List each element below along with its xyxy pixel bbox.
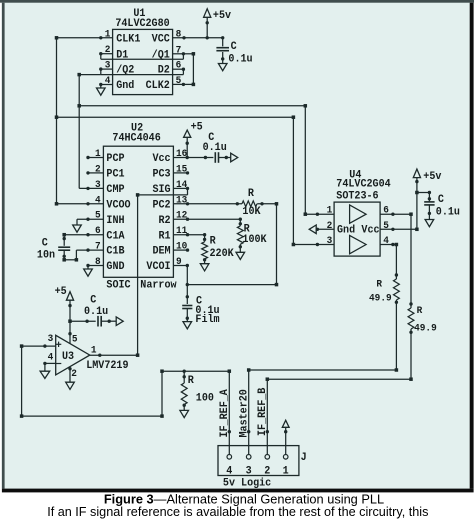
svg-text:Narrow: Narrow (140, 279, 177, 292)
wire Master20 to J pin3 (247, 370, 250, 455)
svg-text:LMV7219: LMV7219 (86, 359, 128, 372)
svg-text:1: 1 (91, 344, 97, 356)
wire R 49.9 B to IF_REF_B (266, 332, 413, 381)
ground below film capacitor (183, 318, 192, 329)
U3 pin numbers (48, 332, 97, 379)
R 100 labels (188, 375, 214, 405)
ground at U3 pin4 (40, 363, 50, 378)
U3 cap labels (84, 294, 108, 318)
U3 value label LMV7219 (86, 359, 128, 372)
R 49.9 A labels (369, 278, 392, 303)
+5v label at U4 (423, 171, 442, 184)
svg-text:DEM: DEM (152, 245, 170, 258)
wire U2 pin15 PC3 stub (173, 171, 189, 174)
wire U2 pin7 C1B stub (76, 248, 103, 251)
wire U2 pin13 PC2 to R 10K (173, 202, 242, 205)
wire U2 pin2 PC1 stub (86, 171, 103, 174)
svg-text:R: R (188, 375, 195, 388)
svg-text:PC2: PC2 (152, 199, 170, 212)
svg-text:R: R (248, 188, 255, 201)
svg-text:4: 4 (95, 194, 101, 206)
U4 value label 74LVC2G04 (336, 178, 391, 191)
wire U3 feedback from IF_REF_A (20, 346, 164, 418)
U4 reference label (349, 169, 362, 182)
svg-text:R2: R2 (159, 214, 171, 227)
svg-text:3: 3 (95, 178, 101, 190)
wire U2 pin10 DEM stub (173, 248, 189, 251)
svg-text:IF_REF_A: IF_REF_A (219, 389, 232, 438)
resistor R 49.9 B (408, 304, 414, 334)
wire IF_REF_B to J pin2 (266, 379, 269, 454)
resistor R 100 (181, 371, 187, 407)
U1 reference label (133, 8, 145, 21)
net label Master20 (238, 389, 251, 437)
U4 inverter B (350, 235, 367, 253)
wire VCO net vertical to U2 VCOO (55, 38, 59, 206)
capacitor C2 0.1u at U2 Vcc (215, 152, 228, 163)
resistor R 10K (242, 201, 257, 207)
svg-text:VCOI: VCOI (146, 261, 170, 274)
wire U1 pin4 Gnd stub (99, 83, 112, 86)
IC U4 74LVC2G04 body (334, 202, 380, 256)
wire VCOI down to film capacitor (186, 266, 189, 305)
svg-text:Vcc: Vcc (152, 153, 170, 166)
svg-text:220K: 220K (210, 248, 235, 261)
svg-text:10n: 10n (37, 249, 55, 262)
wire loop filter to VCOI (187, 204, 278, 287)
svg-text:PC1: PC1 (106, 168, 124, 181)
wire U1 pin1 CLK1 stub (55, 36, 113, 40)
connector J body (218, 446, 299, 476)
op-amp U3 LMV7219 (56, 335, 90, 375)
+5 label at U2 (191, 121, 203, 134)
capacitor C 0.1u at U3 (98, 316, 111, 327)
U4 inverter A (350, 205, 367, 223)
U1 pin name labels (116, 33, 170, 92)
svg-text:1: 1 (327, 204, 333, 216)
svg-text:PCP: PCP (106, 153, 124, 166)
svg-text:CLK1: CLK1 (116, 33, 140, 46)
wire U4 pin4 output (380, 243, 398, 247)
wire to U4 bypass cap (417, 191, 431, 194)
U4 package label SOT23-6 (336, 190, 378, 203)
wire U3 pin4 inverting input (43, 362, 56, 365)
svg-text:Gnd: Gnd (337, 224, 355, 237)
wire U3 pin2 to ground (68, 367, 71, 382)
ground at U4 pin2 (309, 225, 317, 234)
svg-text:VCC: VCC (152, 33, 171, 46)
wire U2 pin1 PCP stub (86, 156, 103, 159)
svg-text:0.1u: 0.1u (228, 53, 252, 66)
resistor R 220K (202, 235, 208, 262)
caption body text (47, 505, 428, 519)
svg-text:5v Logic: 5v Logic (223, 477, 271, 490)
wire pin6 to R 49.9 B (409, 214, 412, 305)
wire D1 to /Q1 feedback (101, 54, 184, 60)
ground right of U3 cap (109, 317, 123, 326)
wire /Q2 to D2 feedback (101, 69, 184, 75)
+5 label at U3 (55, 285, 67, 298)
svg-text:4: 4 (226, 465, 233, 478)
R 220K labels (210, 235, 235, 260)
svg-text:2: 2 (264, 465, 270, 478)
svg-text:INH: INH (106, 214, 124, 227)
ground at U3 pin2 (66, 382, 75, 390)
wire U2 pin8 GND stub (86, 264, 103, 267)
net label IF_REF_B (256, 387, 269, 436)
connector J pin circles (227, 455, 288, 460)
+5 supply at U2 (184, 130, 191, 157)
svg-text:Gnd: Gnd (116, 80, 134, 93)
svg-text:C: C (231, 41, 238, 54)
wire U1 pin5 CLK2 stub (173, 83, 185, 86)
wire U2 pin11 R1 to R 220K (173, 233, 206, 236)
R 10K labels (242, 188, 261, 219)
wire U2 pin3 CMP stub (79, 187, 103, 190)
svg-text:R1: R1 (159, 230, 171, 243)
+5v label at U1 (213, 10, 232, 23)
svg-text:IF_REF_B: IF_REF_B (256, 387, 269, 436)
svg-text:3: 3 (246, 465, 252, 478)
ground at U1 pin4 (97, 85, 106, 96)
ground below R 100K (236, 248, 245, 260)
svg-text:74LVC2G80: 74LVC2G80 (115, 17, 169, 30)
R 49.9 B labels (414, 305, 437, 334)
net label IF_REF_A (219, 389, 232, 438)
svg-text:C: C (42, 237, 49, 250)
IC U1 74LVC2G80 body (113, 29, 173, 94)
ground below R 100 (180, 406, 189, 417)
svg-text:SOIC: SOIC (106, 279, 131, 292)
wire U2 pin4 VCOO stub (57, 202, 104, 205)
wire 10K to loop filter corner (257, 202, 278, 206)
wire U2 pin16 Vcc to +5 and C2 (173, 156, 213, 159)
svg-text:If an IF signal reference is a: If an IF signal reference is available f… (47, 505, 428, 519)
R 100K labels (242, 223, 267, 246)
C 10n labels (37, 237, 55, 262)
wire U4 pin2 Gnd stub (316, 228, 334, 231)
U3 reference label (62, 351, 74, 364)
wire pin4 to R 49.9 A (395, 245, 398, 277)
svg-text:1: 1 (283, 465, 289, 478)
wire U4 pin6 output (380, 212, 413, 216)
U4 cap labels (436, 193, 460, 218)
svg-text:CLK2: CLK2 (146, 80, 170, 93)
svg-text:C: C (438, 193, 445, 206)
svg-text:0.1u: 0.1u (84, 305, 108, 318)
connector J pin numbers (226, 465, 288, 478)
svg-text:74LVC2G04: 74LVC2G04 (336, 178, 391, 191)
caption figure title (104, 491, 384, 506)
svg-text:SOT23-6: SOT23-6 (336, 190, 378, 203)
wire U2 pin9 VCOI stub (173, 264, 189, 267)
U4 Gnd Vcc labels (337, 224, 380, 237)
svg-text:C1A: C1A (106, 230, 125, 243)
C1 labels (228, 41, 252, 66)
+5v supply at U1 (204, 9, 211, 38)
IC U2 74HC4046 body (103, 146, 173, 277)
U2 value label 74HC4046 (112, 132, 160, 145)
wire R 49.9 A to Master20 (247, 302, 398, 371)
svg-text:100K: 100K (242, 233, 267, 246)
U2 package label SOIC Narrow (106, 279, 177, 292)
svg-text:49.9: 49.9 (369, 292, 392, 304)
svg-text:GND: GND (106, 261, 124, 274)
wire U4 pin5 Vcc (380, 228, 419, 232)
+5 supply at U3 (66, 292, 73, 344)
wire to U3 bypass cap (70, 320, 96, 323)
svg-text:2: 2 (71, 368, 77, 380)
svg-text:74HC4046: 74HC4046 (112, 132, 160, 145)
svg-text:0.1u: 0.1u (203, 142, 227, 155)
svg-text:+5: +5 (55, 285, 67, 298)
ground below U4 cap (425, 213, 434, 226)
wire U2 pin12 R2 to R 100K (173, 218, 242, 221)
svg-text:3: 3 (327, 235, 333, 247)
svg-text:100: 100 (196, 392, 214, 405)
resistor R 49.9 A (394, 275, 400, 304)
svg-text:3: 3 (48, 332, 54, 344)
wire U1 pin8 VCC to +5v and C1 (173, 36, 225, 39)
ground at U2 pin8 (84, 266, 93, 277)
capacitor C 10n (58, 235, 78, 262)
svg-text:49.9: 49.9 (414, 322, 437, 334)
connector J reference label (301, 452, 307, 465)
ground below C1 (218, 59, 227, 71)
svg-text:R: R (376, 278, 382, 290)
svg-text:4: 4 (48, 351, 54, 363)
U2 reference label (131, 122, 143, 135)
wire /Q2 net to U2 CMP and U4 pin1 (77, 73, 334, 216)
wire U1 pin6 D2 stub (173, 68, 185, 71)
wire U1 pin7 /Q1 stub (173, 52, 185, 55)
wire U1 pin3 /Q2 stub (99, 67, 112, 70)
svg-text:U3: U3 (62, 351, 74, 364)
wire U2 pin5 INH stub (77, 218, 103, 221)
resistor R 100K (237, 219, 243, 248)
ground right of C2 (226, 153, 237, 162)
wire IF_REF_A to J pin4 (228, 371, 231, 454)
svg-text:+5v: +5v (213, 10, 232, 23)
C2 labels (203, 132, 227, 155)
U4 pin numbers (327, 204, 389, 246)
+5v supply at U4 (413, 169, 420, 229)
wire U2 pin14 SIG stub (173, 187, 189, 190)
svg-text:Master20: Master20 (238, 389, 251, 437)
U2 pin numbers (95, 148, 187, 268)
film capacitor labels (195, 295, 219, 326)
svg-text:R: R (210, 235, 217, 248)
wire U3 output pin1 (90, 354, 138, 357)
U1 pin numbers (105, 28, 182, 86)
svg-text:Film: Film (195, 314, 219, 327)
wire /Q1 to CLK2 (183, 52, 195, 86)
capacitor C 0.1u Film (182, 306, 192, 320)
capacitor C1 0.1u at U1 (216, 38, 229, 61)
ground at U2 INH (73, 219, 82, 232)
wire SIG to U3 output (136, 188, 188, 357)
svg-text:CMP: CMP (106, 184, 124, 197)
U1 value label 74LVC2G80 (115, 17, 169, 30)
capacitor C 0.1u at U4 (424, 193, 434, 216)
svg-text:5: 5 (72, 333, 78, 345)
svg-text:R: R (417, 305, 423, 317)
svg-text:VCOO: VCOO (106, 199, 131, 212)
wire U2 pin6 C1A stub (62, 233, 103, 237)
svg-text:0.1u: 0.1u (436, 206, 460, 219)
U3 input polarity marks (56, 342, 61, 364)
svg-text:PC3: PC3 (152, 168, 170, 181)
svg-text:+5: +5 (191, 121, 203, 134)
+5 supply at J pin1 (282, 420, 289, 454)
svg-text:Vcc: Vcc (361, 224, 379, 237)
svg-text:10K: 10K (242, 206, 261, 219)
ground below R 220K (200, 260, 209, 271)
connector label 5v Logic (223, 477, 271, 490)
U2 pin name labels (106, 153, 170, 274)
wire IF_REF_A bus (162, 369, 231, 373)
wire U3 pin3 noninverting input (20, 344, 56, 348)
svg-text:C1B: C1B (106, 245, 125, 258)
svg-text:J: J (301, 452, 307, 465)
wire VCO net to U4 pin3 (57, 115, 335, 246)
wire U1 pin2 D1 stub (99, 52, 112, 55)
svg-text:+5v: +5v (423, 171, 442, 184)
